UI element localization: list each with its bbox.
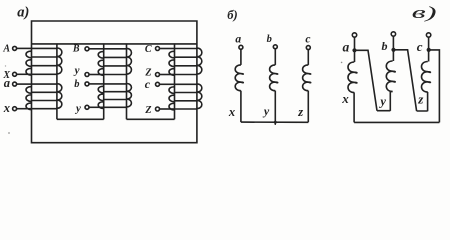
svg-text:b: b	[382, 39, 388, 53]
winding LV phase B (b-y)	[98, 84, 131, 109]
terminal X leg1	[13, 72, 17, 76]
neutral stub at star point	[274, 122, 276, 125]
speck	[5, 65, 6, 66]
winding LV phase C (c-Z)	[169, 84, 202, 110]
wire terminal a to leg1	[17, 83, 32, 85]
svg-text:y: y	[74, 102, 81, 114]
terminal A leg1	[13, 46, 17, 50]
terminal a (part v)	[352, 33, 356, 37]
winding HV phase B (B-y)	[98, 48, 131, 75]
junction dot b	[391, 48, 395, 52]
svg-text:a: a	[4, 76, 10, 90]
terminal c leg3	[156, 82, 160, 86]
terminal a (part b)	[239, 45, 243, 49]
speck	[341, 62, 343, 64]
wire - top horizontal bus under yoke	[32, 43, 197, 45]
wire - bottom bus (part v)	[354, 121, 439, 123]
terminal b (part v)	[391, 32, 395, 36]
core leg 2 right edge	[126, 44, 128, 119]
svg-text:y: y	[262, 104, 270, 118]
wire z junction U (part v)	[417, 92, 428, 111]
wire y junction U (part v)	[377, 92, 393, 111]
terminal C leg3	[156, 47, 160, 51]
core outline box (part a)	[32, 21, 197, 143]
winding LV phase A (a-x)	[26, 84, 62, 110]
terminal c (part b)	[306, 46, 310, 50]
wire terminal b to leg2	[89, 83, 104, 85]
terminal c (part v)	[426, 33, 430, 37]
wire terminal Z to leg3	[160, 74, 175, 76]
speck	[8, 132, 10, 134]
terminal b (part b)	[273, 45, 277, 49]
svg-text:c: c	[417, 39, 423, 54]
wire terminal c to leg3	[160, 83, 175, 85]
wire terminal y to leg2	[89, 106, 104, 108]
core leg 3 left edge	[174, 44, 176, 119]
terminal y leg2	[85, 73, 89, 77]
wire coil b to star bus	[274, 91, 276, 122]
core leg 1 right edge	[56, 44, 58, 119]
terminal a leg1	[13, 82, 17, 86]
terminal Z leg3	[156, 73, 160, 77]
wire - window 1 bottom edge	[57, 118, 104, 120]
svg-text:a: a	[343, 39, 350, 54]
coil phase a (part b)	[235, 65, 243, 91]
svg-text:C: C	[145, 44, 152, 55]
wire b to coil	[274, 49, 276, 65]
svg-text:c: c	[145, 77, 151, 91]
terminal y leg2	[85, 105, 89, 109]
coil half-winding b (part v)	[386, 61, 395, 92]
svg-text:z: z	[297, 105, 303, 119]
terminal B leg2	[85, 47, 89, 51]
wire c to coil	[307, 50, 309, 65]
svg-text:z: z	[417, 91, 424, 106]
wire a down to coil	[354, 37, 356, 62]
label v)	[412, 3, 437, 22]
wire - star point bus (part b)	[241, 121, 309, 123]
wire terminal x to leg1	[17, 108, 32, 110]
svg-text:c: c	[305, 34, 310, 46]
core leg 2 left edge	[103, 44, 105, 119]
svg-text:A: A	[2, 44, 10, 55]
wire a to coil	[240, 49, 242, 65]
terminal b leg2	[85, 82, 89, 86]
terminal x leg1	[13, 107, 17, 111]
svg-text:b: b	[74, 79, 79, 90]
wire coil a to star bus	[240, 91, 242, 122]
svg-text:a: a	[235, 34, 241, 46]
svg-text:y: y	[378, 95, 386, 109]
winding HV phase A (A-X)	[26, 48, 62, 75]
winding HV phase C (C-Z)	[169, 48, 202, 75]
wire terminal A to leg1	[17, 47, 32, 49]
wire c branch to right edge down	[429, 50, 440, 123]
coil phase c (part b)	[303, 65, 311, 91]
wire terminal B to leg2	[89, 48, 104, 50]
junction dot a	[352, 48, 356, 52]
svg-text:x: x	[228, 105, 235, 119]
coil half-winding c (part v)	[422, 62, 431, 93]
wire b branch diagonal to z junction	[394, 50, 417, 111]
svg-text:B: B	[72, 44, 80, 55]
wire terminal X to leg1	[17, 73, 32, 75]
wire coil a down to bottom bus	[353, 93, 355, 123]
svg-text:б): б)	[227, 8, 237, 22]
terminal Z leg3	[156, 107, 160, 111]
wire terminal y to leg2	[89, 74, 104, 76]
coil phase b (part b)	[270, 65, 278, 91]
svg-text:y: y	[73, 65, 80, 77]
svg-text:Z: Z	[144, 105, 151, 116]
wire coil c to star bus	[307, 91, 309, 122]
svg-text:а): а)	[17, 5, 29, 21]
svg-text:x: x	[3, 101, 10, 115]
wire a branch diagonal to y junction	[355, 50, 378, 110]
wire b down to coil	[392, 36, 394, 61]
svg-text:в): в)	[412, 3, 437, 22]
wire - window 2 bottom edge	[127, 118, 175, 120]
coil half-winding a (part v)	[348, 62, 357, 93]
junction dot c	[427, 48, 431, 52]
wire c down to coil	[428, 37, 430, 61]
wire terminal Z to leg3	[160, 108, 175, 110]
svg-text:x: x	[341, 91, 349, 106]
star point junction dot	[274, 121, 277, 124]
svg-text:b: b	[267, 34, 272, 45]
wire terminal C to leg3	[160, 48, 175, 50]
